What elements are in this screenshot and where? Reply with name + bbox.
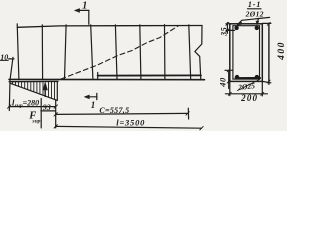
l_sup tick right <box>54 105 58 109</box>
C tick left <box>54 113 57 117</box>
dim 40 line <box>228 70 230 88</box>
background paper <box>0 0 287 131</box>
93 underline dim <box>41 110 56 112</box>
dim 200 ext left <box>229 81 231 95</box>
dim 10 underline <box>0 59 8 61</box>
stirrup S7 <box>164 25 166 80</box>
svg-text:10: 10 <box>0 53 8 62</box>
svg-text:93: 93 <box>43 103 51 112</box>
section mark top: arrowhead <box>75 9 80 13</box>
dim 35 slash bottom <box>226 29 229 32</box>
2d12 leader arrowhead left <box>237 22 243 26</box>
bottom bar end tick <box>97 73 99 80</box>
bottom bar right <box>255 75 260 80</box>
beam top edge <box>17 26 202 28</box>
beam bottom edge <box>9 78 205 80</box>
triangle hypotenuse <box>10 83 57 100</box>
triangle hatching <box>13 82 55 99</box>
dim 400 line <box>268 23 270 84</box>
C right extension line <box>187 108 189 119</box>
bottom bars row band <box>236 77 260 80</box>
stirrup S3 <box>65 25 67 80</box>
svg-text:35: 35 <box>219 27 228 37</box>
dim 200 ext right <box>261 81 263 96</box>
svg-text:sup: sup <box>14 103 23 109</box>
stirrup S8 <box>189 25 191 80</box>
C tick right <box>186 112 189 116</box>
stirrup S2 <box>41 25 43 80</box>
dim 35 ext at bar level <box>226 29 234 31</box>
l_sup tick left <box>8 105 12 109</box>
stirrup S6 <box>140 25 141 80</box>
svg-text:C=557,5: C=557,5 <box>99 106 129 115</box>
stirrup S5 <box>115 25 117 80</box>
l_sup dimension line <box>9 106 56 108</box>
beam left edge <box>17 24 19 80</box>
bent bar dashed diagonal <box>61 26 178 79</box>
support left edge line <box>9 57 13 110</box>
section mark bottom: arrowhead <box>84 95 89 99</box>
svg-text:40: 40 <box>218 77 228 88</box>
section mark top: trace tick <box>88 10 90 24</box>
svg-text:1-1: 1-1 <box>248 0 261 9</box>
dim 200 slash right <box>261 92 264 95</box>
dim 40 ext top <box>225 69 233 71</box>
stirrup <box>233 26 260 79</box>
svg-text:l=3500: l=3500 <box>116 117 145 127</box>
l tick left <box>54 125 57 128</box>
svg-text:1: 1 <box>91 100 96 110</box>
C dimension line <box>56 113 188 114</box>
dim 400 ext bottom <box>262 81 271 82</box>
dim 40 slash top <box>227 69 230 72</box>
section outline <box>230 24 262 82</box>
section mark top: line <box>76 9 89 11</box>
right extension line from triangle corner <box>55 100 57 128</box>
svg-text:200: 200 <box>240 93 258 103</box>
svg-text:=280: =280 <box>23 99 40 108</box>
dim 35 line <box>226 23 228 34</box>
bottom bar left <box>235 75 240 80</box>
l tick right <box>200 126 203 129</box>
dim 200 slash left <box>228 92 231 95</box>
section mark bottom: trace tick <box>96 93 98 99</box>
dim 400 slash top <box>267 22 270 25</box>
dim 35 ext top <box>226 23 230 25</box>
93 ext line left <box>40 99 42 128</box>
dim 400 slash bottom <box>267 80 270 83</box>
section mark bottom: line <box>86 96 97 98</box>
svg-text:400: 400 <box>277 41 287 61</box>
triangle right edge <box>56 82 58 101</box>
dim 10 tick <box>9 58 14 60</box>
dim 35 slash top <box>226 22 229 25</box>
2d12 branch arrow <box>257 18 258 23</box>
l dimension line <box>56 126 202 128</box>
top bar left <box>234 26 238 30</box>
break line <box>195 26 202 80</box>
support pressure triangle top line <box>9 80 58 82</box>
title underline <box>248 8 262 10</box>
svg-text:sup: sup <box>31 119 40 125</box>
svg-text:2Ø12: 2Ø12 <box>245 10 264 19</box>
dim 200 line <box>225 93 267 95</box>
2d25 leader <box>238 80 260 91</box>
dim 400 ext top <box>262 22 271 24</box>
bottom bar <box>98 74 201 76</box>
svg-text:1: 1 <box>82 1 87 12</box>
stirrup S4 <box>91 25 93 80</box>
F_sup arrow <box>44 88 46 96</box>
svg-text:2Ø25: 2Ø25 <box>237 81 256 92</box>
2d12 leader <box>238 17 270 24</box>
top bar right <box>255 26 259 30</box>
dim 40 slash bottom <box>227 80 230 83</box>
